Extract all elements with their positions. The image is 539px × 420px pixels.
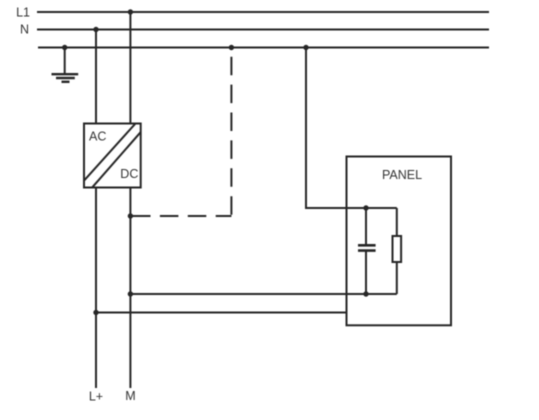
svg-text:L+: L+ <box>89 390 103 404</box>
svg-text:N: N <box>20 23 29 37</box>
svg-text:PANEL: PANEL <box>382 168 422 182</box>
svg-text:AC: AC <box>89 130 106 144</box>
svg-text:DC: DC <box>120 167 138 181</box>
svg-text:M: M <box>125 389 135 403</box>
svg-text:L1: L1 <box>16 6 30 20</box>
